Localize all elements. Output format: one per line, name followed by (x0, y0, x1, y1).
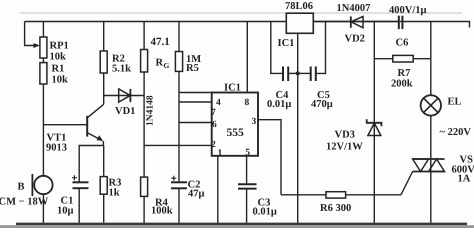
diode VD1 cathode bar (129, 89, 131, 102)
svg-text:1: 1 (218, 148, 223, 158)
svg-text:100k: 100k (151, 206, 173, 217)
resistor R2 body (100, 51, 107, 73)
capacitor C3 top plate (238, 183, 257, 185)
wire base tap to VT1 (43, 124, 86, 126)
svg-text:CM − 18W: CM − 18W (0, 197, 49, 208)
capacitor C5 left plate (310, 67, 312, 82)
wire EL to triac (430, 116, 432, 223)
svg-text:1k: 1k (109, 188, 120, 199)
ground bus bottom wire (16, 223, 467, 226)
op-amp U1: timer IC1 555 box (212, 93, 258, 156)
svg-text:555: 555 (227, 127, 245, 139)
triac VS right triangle (429, 159, 445, 172)
wire C3 to ground bus (246, 189, 248, 223)
lamp EL circle (421, 95, 441, 115)
transistor VT1 base bar (86, 116, 88, 137)
RP1 wiper arrowhead (34, 43, 40, 48)
wire stub to 555 top corner (179, 92, 212, 94)
wire C2 to ground bus (178, 188, 180, 223)
resistor R4 body (141, 177, 148, 196)
svg-text:IC1: IC1 (224, 83, 241, 94)
wire pin 8 to Vcc bus (246, 22, 248, 93)
wire R1 bottom to microphone (42, 84, 44, 176)
scan artifact line top (20, 12, 462, 14)
wire dropper node riser (373, 22, 375, 223)
svg-text:200k: 200k (391, 79, 413, 90)
wire EL chain top (430, 22, 432, 96)
svg-text:2: 2 (211, 140, 216, 150)
wire R6 to triac gate (346, 194, 401, 196)
svg-text:3: 3 (252, 117, 257, 127)
svg-text:7: 7 (211, 108, 216, 118)
svg-text:EL: EL (448, 97, 462, 108)
resistor R6 body (326, 192, 346, 198)
regulator IC1 78L06 box (286, 13, 313, 33)
wire R5 top lead (178, 22, 180, 52)
svg-text:78L06: 78L06 (285, 1, 313, 12)
diode VD1 triangle (119, 89, 131, 102)
capacitor C2 top plate (171, 181, 187, 183)
wire triac gate diagonal (401, 172, 413, 195)
wire Vcc top bus left (25, 21, 287, 23)
wire R5 bottom down to C2 (178, 71, 180, 182)
capacitor C4 right plate (287, 67, 289, 82)
wire RP1 wiper loop (25, 22, 38, 46)
capacitor C1 bottom plate (73, 187, 89, 189)
svg-text:0.01μ: 0.01μ (253, 207, 277, 218)
svg-text:C6: C6 (396, 38, 409, 49)
wire top bus right (VD2 to mains end) (313, 22, 469, 28)
wire C4 to gnd node (288, 72, 298, 74)
wire RP1 top lead (42, 22, 44, 38)
svg-text:6: 6 (212, 120, 217, 130)
svg-text:R1: R1 (52, 64, 65, 75)
lamp EL cross stroke 2 (424, 98, 438, 112)
capacitor C2 bottom plate (171, 187, 187, 189)
wire R2 top lead (103, 22, 105, 52)
transistor VT1 emitter stroke (87, 133, 102, 141)
wire RP1 to R1 (42, 58, 44, 63)
resistor R5 body (175, 52, 182, 72)
capacitor C3 bottom plate (238, 188, 257, 190)
svg-text:1N4148: 1N4148 (146, 95, 156, 126)
capacitor C1 plus sign (72, 175, 77, 180)
svg-text:1N4007: 1N4007 (337, 3, 371, 14)
resistor RG body (141, 50, 148, 73)
svg-text:8: 8 (245, 98, 250, 108)
capacitor C6 left plate (398, 16, 400, 29)
resistor R7 body (393, 55, 413, 62)
svg-text:IC1: IC1 (278, 38, 295, 49)
wire 78L06 gnd lead down (297, 33, 299, 73)
resistor R3 body (100, 177, 107, 195)
svg-text:400V/1μ: 400V/1μ (389, 5, 427, 16)
diode VD2 triangle (351, 16, 363, 27)
capacitor C1 top plate (73, 181, 89, 183)
wire emitter node to R3 (103, 146, 105, 177)
wire R4 to ground bus (143, 196, 145, 222)
wire RG bottom down to R4 (143, 72, 145, 177)
svg-text:5.1k: 5.1k (112, 64, 131, 75)
wire emitter node to C1 (79, 146, 103, 183)
wire stub pin 6 (179, 122, 212, 124)
svg-text:10k: 10k (52, 75, 69, 86)
svg-text:R6 300: R6 300 (320, 203, 351, 214)
wire VD1 left lead (104, 95, 144, 97)
svg-text:RP1: RP1 (50, 41, 69, 52)
microphone B membrane bar (31, 174, 33, 196)
wire pin 3 out (258, 120, 281, 195)
svg-text:~ 220V: ~ 220V (440, 127, 472, 138)
node C4/C5 junction dot (296, 71, 300, 75)
wire R3 to ground bus (103, 194, 105, 223)
microphone B body circle (34, 176, 52, 194)
zener diode VD3 triangle (368, 123, 381, 136)
wire R7 left lead (374, 58, 393, 60)
potentiometer RP1 body (40, 37, 47, 58)
wire stub pin 4 (179, 101, 212, 103)
svg-text:VD3: VD3 (335, 130, 355, 141)
svg-text:12V/1W: 12V/1W (326, 142, 363, 153)
capacitor C2 plus sign (171, 176, 176, 181)
triac VS top bar (413, 158, 445, 160)
wire C5 right riser (316, 22, 326, 74)
triac VS bottom bar (413, 171, 445, 173)
svg-text:0.01μ: 0.01μ (267, 99, 291, 110)
wire RG top lead (143, 22, 145, 50)
svg-text:G: G (164, 61, 170, 70)
svg-text:9013: 9013 (46, 143, 67, 154)
wire microphone to ground bus (42, 194, 44, 223)
wire R2 bottom to collector node (103, 73, 105, 104)
svg-text:VD2: VD2 (345, 34, 365, 45)
wire pin 5 to C3 (246, 156, 248, 184)
wire emitter down (102, 141, 104, 146)
wire pin 1 to ground bus (217, 156, 219, 223)
transistor VT1 collector stroke (87, 104, 104, 118)
wire gnd node to ground bus (297, 73, 299, 222)
svg-text:4: 4 (216, 98, 221, 108)
svg-text:B: B (18, 182, 25, 193)
svg-text:VD1: VD1 (115, 106, 135, 117)
svg-text:47μ: 47μ (188, 189, 205, 200)
wire pin 2 to R4 node (144, 144, 212, 146)
wire pin3 node to R6 (281, 194, 326, 196)
wire C1 to ground bus (78, 188, 80, 223)
wire VD2 to C6 (313, 21, 399, 23)
capacitor C4 left plate (282, 67, 284, 82)
wire R7 right lead (413, 58, 431, 60)
svg-text:1A: 1A (458, 174, 471, 185)
triac VS left triangle (413, 159, 429, 172)
ground bus page edge band (0, 225, 474, 228)
zener diode VD3 cathode bar (367, 119, 382, 126)
svg-text:R: R (156, 58, 164, 69)
capacitor C6 right plate (401, 16, 403, 29)
svg-text:5: 5 (245, 148, 250, 158)
svg-text:470μ: 470μ (311, 99, 333, 110)
diode VD2 cathode bar (350, 16, 352, 27)
resistor R1 body (40, 63, 47, 84)
lamp EL cross stroke 1 (424, 98, 438, 112)
svg-text:R7: R7 (398, 68, 411, 79)
svg-text:R5: R5 (186, 63, 199, 74)
capacitor C5 right plate (315, 67, 317, 82)
wire gnd node to C5 (298, 72, 311, 74)
svg-text:10μ: 10μ (57, 206, 74, 217)
transistor VT1 emitter arrowhead (97, 135, 104, 141)
svg-text:47.1: 47.1 (151, 36, 170, 48)
wire C4 left riser (271, 22, 283, 74)
svg-text:10k: 10k (50, 52, 67, 63)
